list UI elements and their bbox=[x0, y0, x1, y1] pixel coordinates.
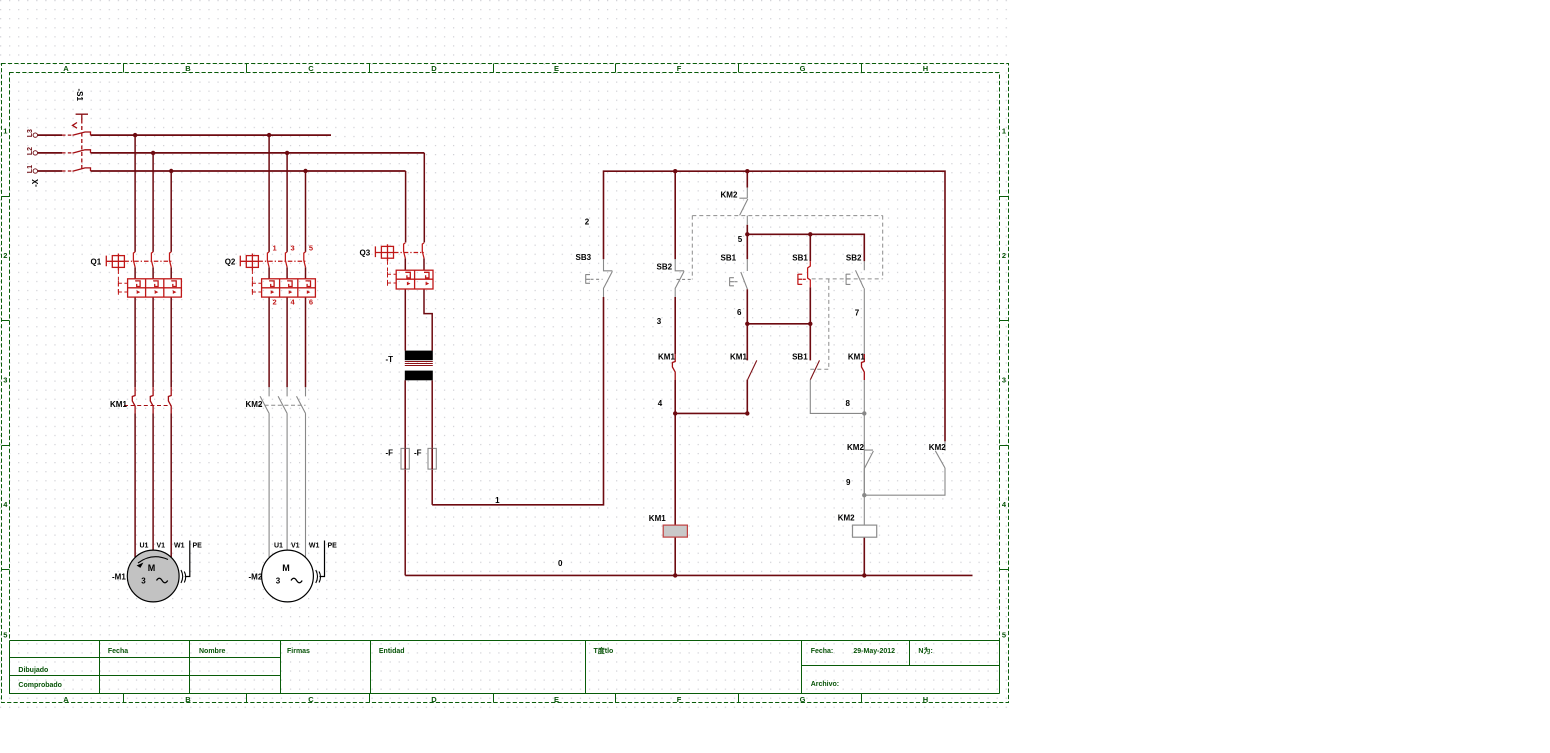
svg-text:SB2: SB2 bbox=[657, 263, 673, 272]
svg-text:V1: V1 bbox=[291, 543, 300, 550]
svg-text:D: D bbox=[431, 64, 437, 73]
svg-text:3: 3 bbox=[3, 376, 7, 385]
svg-text:B: B bbox=[185, 695, 191, 704]
svg-text:5: 5 bbox=[309, 243, 313, 252]
svg-text:2: 2 bbox=[585, 217, 590, 226]
svg-text:SB3: SB3 bbox=[576, 253, 592, 262]
svg-text:KM2: KM2 bbox=[929, 443, 946, 452]
svg-text:3: 3 bbox=[141, 576, 146, 585]
svg-text:C: C bbox=[308, 64, 314, 73]
svg-text:3: 3 bbox=[1002, 376, 1006, 385]
svg-text:0: 0 bbox=[558, 559, 563, 568]
svg-text:T度tlo: T度tlo bbox=[594, 646, 614, 655]
svg-text:4: 4 bbox=[658, 399, 663, 408]
svg-text:L2: L2 bbox=[27, 147, 34, 155]
svg-text:KM1: KM1 bbox=[649, 514, 666, 523]
svg-text:Q1: Q1 bbox=[91, 258, 102, 267]
svg-text:Fecha:: Fecha: bbox=[811, 648, 834, 655]
svg-text:L3: L3 bbox=[27, 129, 34, 137]
svg-text:7: 7 bbox=[855, 309, 860, 318]
svg-text:M: M bbox=[282, 563, 290, 573]
svg-text:Q3: Q3 bbox=[360, 249, 371, 258]
svg-text:SB1: SB1 bbox=[792, 353, 808, 362]
svg-text:H: H bbox=[923, 695, 928, 704]
svg-text:F: F bbox=[677, 64, 682, 73]
svg-text:Entidad: Entidad bbox=[379, 648, 405, 655]
svg-text:SB1: SB1 bbox=[721, 253, 737, 262]
svg-text:V1: V1 bbox=[157, 543, 166, 550]
svg-text:G: G bbox=[800, 64, 806, 73]
svg-text:A: A bbox=[63, 695, 69, 704]
svg-text:SB1: SB1 bbox=[792, 253, 808, 262]
svg-text:-M1: -M1 bbox=[112, 573, 126, 582]
svg-text:8: 8 bbox=[846, 399, 851, 408]
svg-text:Fecha: Fecha bbox=[108, 648, 128, 655]
svg-text:Comprobado: Comprobado bbox=[18, 682, 62, 689]
svg-text:-M2: -M2 bbox=[249, 573, 263, 582]
svg-text:-F: -F bbox=[386, 449, 394, 458]
svg-text:G: G bbox=[800, 695, 806, 704]
svg-text:U1: U1 bbox=[274, 543, 283, 550]
svg-text:Firmas: Firmas bbox=[287, 648, 310, 655]
svg-text:W1: W1 bbox=[174, 543, 185, 550]
svg-text:L1: L1 bbox=[27, 165, 34, 173]
svg-text:-X: -X bbox=[31, 178, 40, 187]
svg-text:Dibujado: Dibujado bbox=[18, 667, 48, 674]
svg-text:6: 6 bbox=[737, 308, 742, 317]
svg-text:U1: U1 bbox=[140, 543, 149, 550]
svg-text:KM2: KM2 bbox=[246, 400, 263, 409]
svg-text:5: 5 bbox=[738, 235, 743, 244]
svg-text:D: D bbox=[431, 695, 437, 704]
svg-text:3: 3 bbox=[657, 317, 662, 326]
svg-text:9: 9 bbox=[846, 478, 851, 487]
svg-text:KM2: KM2 bbox=[838, 514, 855, 523]
svg-text:W1: W1 bbox=[309, 543, 320, 550]
svg-text:KM2: KM2 bbox=[721, 191, 738, 200]
svg-text:3: 3 bbox=[276, 576, 281, 585]
svg-text:-S1: -S1 bbox=[75, 89, 84, 102]
svg-text:1: 1 bbox=[1002, 127, 1006, 136]
svg-text:5: 5 bbox=[1002, 631, 1006, 640]
svg-text:B: B bbox=[185, 64, 191, 73]
svg-text:PE: PE bbox=[193, 543, 203, 550]
svg-text:KM2: KM2 bbox=[847, 443, 864, 452]
svg-text:2: 2 bbox=[273, 297, 277, 306]
svg-text:Q2: Q2 bbox=[225, 258, 236, 267]
svg-text:KM1: KM1 bbox=[658, 353, 675, 362]
svg-text:H: H bbox=[923, 64, 928, 73]
svg-text:E: E bbox=[554, 64, 559, 73]
svg-text:E: E bbox=[554, 695, 559, 704]
svg-text:6: 6 bbox=[309, 297, 313, 306]
svg-text:A: A bbox=[63, 64, 69, 73]
svg-text:C: C bbox=[308, 695, 314, 704]
svg-text:Archivo:: Archivo: bbox=[811, 681, 839, 688]
svg-text:-F: -F bbox=[414, 449, 422, 458]
svg-text:F: F bbox=[677, 695, 682, 704]
svg-text:1: 1 bbox=[273, 243, 277, 252]
svg-text:-T: -T bbox=[386, 355, 394, 364]
svg-text:2: 2 bbox=[1002, 251, 1006, 260]
svg-text:N为:: N为: bbox=[918, 646, 932, 655]
svg-text:Nombre: Nombre bbox=[199, 648, 226, 655]
svg-text:3: 3 bbox=[291, 243, 295, 252]
svg-text:29-May-2012: 29-May-2012 bbox=[853, 648, 895, 655]
svg-text:M: M bbox=[148, 563, 156, 573]
svg-text:5: 5 bbox=[3, 631, 7, 640]
svg-text:1: 1 bbox=[3, 127, 7, 136]
svg-text:KM1: KM1 bbox=[848, 353, 865, 362]
svg-text:KM1: KM1 bbox=[110, 400, 127, 409]
svg-text:PE: PE bbox=[328, 543, 338, 550]
svg-text:2: 2 bbox=[3, 251, 7, 260]
svg-text:SB2: SB2 bbox=[846, 253, 862, 262]
svg-text:KM1: KM1 bbox=[730, 353, 747, 362]
svg-text:1: 1 bbox=[495, 496, 500, 505]
